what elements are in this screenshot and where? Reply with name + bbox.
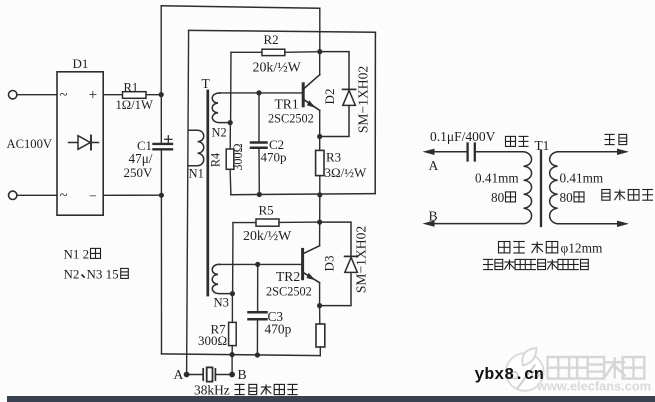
wire (17, 94, 57, 96)
wire collector TR2 (319, 222, 321, 246)
node junction base2/C3 (255, 262, 260, 267)
node junction base1/C2 (256, 90, 261, 95)
svg-text:ybx8.cn: ybx8.cn (475, 365, 544, 384)
node junction C1/D1− (159, 193, 164, 198)
wire (231, 51, 262, 53)
svg-text:0.41mm: 0.41mm (560, 171, 604, 186)
svg-text:470p: 470p (265, 322, 292, 337)
capacitor 0.1μF (468, 144, 475, 161)
svg-text:2SC2502: 2SC2502 (268, 112, 314, 126)
node junction R7/B rail (230, 352, 235, 357)
footer bar (7, 396, 655, 402)
svg-text:R2: R2 (264, 32, 279, 47)
node junction R3/rail (317, 192, 322, 197)
svg-text:N3: N3 (214, 296, 229, 310)
svg-text:0.1μF/400V: 0.1μF/400V (430, 129, 496, 144)
wire (17, 194, 57, 196)
arrow B left (423, 220, 435, 226)
wire R5 left leg (232, 223, 234, 294)
diode D2 (343, 89, 356, 105)
svg-text:B: B (238, 367, 247, 382)
wire emitter TR1 (319, 110, 321, 136)
wire (319, 176, 321, 195)
wire emitter TR2 (319, 283, 321, 306)
svg-text:300Ω: 300Ω (198, 333, 227, 348)
capacitor C3 (249, 312, 267, 319)
svg-text:D3: D3 (322, 256, 337, 272)
svg-text:R1: R1 (124, 81, 139, 95)
wire (258, 149, 260, 195)
node B (229, 372, 235, 378)
wire (319, 8, 321, 51)
svg-text:D2: D2 (322, 89, 337, 105)
wire (160, 150, 162, 195)
svg-text:R5: R5 (259, 203, 274, 218)
svg-text:0.41mm: 0.41mm (475, 171, 519, 186)
wire D2 loop (322, 52, 349, 137)
resistor R7 (229, 322, 237, 345)
svg-text:SM−1XH02: SM−1XH02 (356, 66, 371, 134)
svg-text:AC100V: AC100V (7, 137, 52, 151)
transistor TR1 (303, 75, 320, 111)
node junction R1/C1 (159, 92, 164, 97)
resistor R5 (256, 219, 279, 226)
wire (319, 137, 321, 151)
label 初级 (506, 136, 516, 146)
terminal AC input top (9, 91, 17, 99)
wire collector TR1 (319, 52, 321, 75)
label 去换能器 (602, 190, 610, 201)
winding N1 (187, 130, 203, 166)
diode inside D1 (69, 136, 99, 150)
svg-text:D1: D1 (73, 56, 89, 71)
wire (160, 195, 162, 354)
wire (187, 374, 204, 376)
wire (160, 95, 162, 144)
wire (285, 51, 320, 54)
transistor TR2 (303, 246, 320, 283)
svg-text:2SC2502: 2SC2502 (266, 285, 312, 299)
wire base TR2 (219, 263, 301, 265)
terminal AC input bottom (9, 191, 17, 199)
svg-text:−: − (89, 190, 97, 205)
svg-text:N2: N2 (64, 267, 80, 282)
logo circle (506, 348, 544, 391)
wire (258, 93, 260, 141)
svg-text:250V: 250V (124, 165, 154, 180)
svg-text:20k/½W: 20k/½W (243, 229, 292, 244)
transducer element (203, 367, 215, 381)
svg-text:φ12mm: φ12mm (561, 241, 604, 256)
svg-text:+: + (89, 87, 98, 104)
resistor R6 (316, 324, 325, 347)
resistor R2 (262, 49, 285, 55)
watermark 电子发烧友 (548, 357, 570, 379)
wire (229, 123, 231, 149)
node junction N3/R7 (230, 291, 235, 296)
resistor R3 (316, 150, 324, 175)
resistor R1 (123, 92, 147, 99)
svg-text:~: ~ (60, 88, 68, 104)
svg-text:20k/½W: 20k/½W (253, 61, 302, 76)
svg-text:A: A (429, 158, 439, 173)
wire rail 2 (189, 30, 376, 32)
svg-text:1Ω/1W: 1Ω/1W (116, 98, 153, 112)
node junction C3/rail4 (255, 352, 260, 357)
svg-text:N1: N1 (189, 167, 204, 181)
resistor R4 (226, 149, 234, 169)
svg-text:470p: 470p (261, 150, 287, 165)
svg-text:N3 15: N3 15 (87, 267, 119, 282)
wire (231, 294, 233, 323)
svg-text:R4: R4 (209, 153, 223, 167)
winding T1 secondary (550, 152, 558, 224)
arrow secondary bottom right (617, 221, 629, 227)
svg-text:A: A (174, 367, 184, 382)
winding N2 (212, 93, 229, 123)
capacitor C2 (251, 143, 267, 148)
core of transformer T (206, 91, 209, 295)
svg-text:38kHz: 38kHz (194, 383, 230, 398)
capacitor C1 (154, 136, 173, 150)
winding T1 primary (524, 152, 532, 224)
svg-text:T: T (202, 76, 211, 91)
svg-text:TR2: TR2 (276, 269, 300, 284)
wire (256, 321, 258, 356)
wire rail 4 (162, 354, 321, 356)
wire (229, 169, 232, 194)
caption 中心磁柱 φ12mm (499, 242, 510, 254)
node junction N2/R4 (228, 120, 233, 125)
svg-text:N1 2: N1 2 (64, 247, 90, 262)
wire left leg to node A (187, 30, 189, 374)
wire top rail (161, 6, 320, 9)
wire (160, 6, 162, 95)
svg-text:www.elecfans.com: www.elecfans.com (536, 379, 651, 394)
label 次级 (605, 134, 615, 144)
node junction emitter1/D2 (317, 134, 322, 139)
wire (146, 94, 161, 96)
node junction R5/D3/collector2 (317, 220, 322, 225)
svg-text:~: ~ (60, 188, 68, 204)
svg-text:80: 80 (491, 190, 505, 205)
wire (279, 221, 320, 223)
wire base TR1 (219, 92, 302, 94)
wire rail3 to collector2 (319, 195, 321, 222)
node junction R2/D2/collector (317, 49, 322, 54)
svg-text:300Ω: 300Ω (231, 143, 245, 170)
wire right leg (374, 32, 376, 193)
wire (231, 346, 233, 355)
wire R2 left leg (230, 52, 232, 122)
svg-text:N2: N2 (212, 126, 227, 140)
arrow secondary top right (617, 149, 629, 155)
wire (476, 151, 524, 153)
wire (231, 355, 233, 375)
wire (215, 374, 232, 376)
wire rail 3 (231, 194, 375, 195)
caption 输出隔离变压器的数据 (483, 259, 493, 269)
rectifier D1 (57, 72, 103, 215)
diode D3 (345, 256, 358, 272)
arrow A left (423, 149, 435, 155)
svg-text:R3: R3 (326, 150, 341, 165)
wire (103, 94, 122, 96)
wire D3 loop (322, 222, 351, 306)
wire (103, 194, 161, 196)
core of T1 (540, 151, 542, 227)
wire (233, 222, 256, 224)
wire (432, 151, 467, 153)
node A (184, 372, 190, 378)
wire (432, 223, 524, 225)
node junction emitter2/D3 (317, 303, 322, 308)
svg-text:47μ/: 47μ/ (129, 151, 153, 166)
node junction C2/rail (257, 192, 262, 197)
wire (319, 347, 321, 356)
wire (558, 151, 618, 153)
svg-text:80: 80 (560, 190, 574, 205)
winding N3 (212, 264, 231, 293)
svg-text:3Ω/½W: 3Ω/½W (325, 165, 368, 180)
svg-text:SM−1XH02: SM−1XH02 (354, 226, 369, 294)
wire (558, 223, 618, 225)
wire (319, 306, 321, 324)
wire (257, 264, 259, 311)
svg-text:TR1: TR1 (275, 97, 299, 112)
